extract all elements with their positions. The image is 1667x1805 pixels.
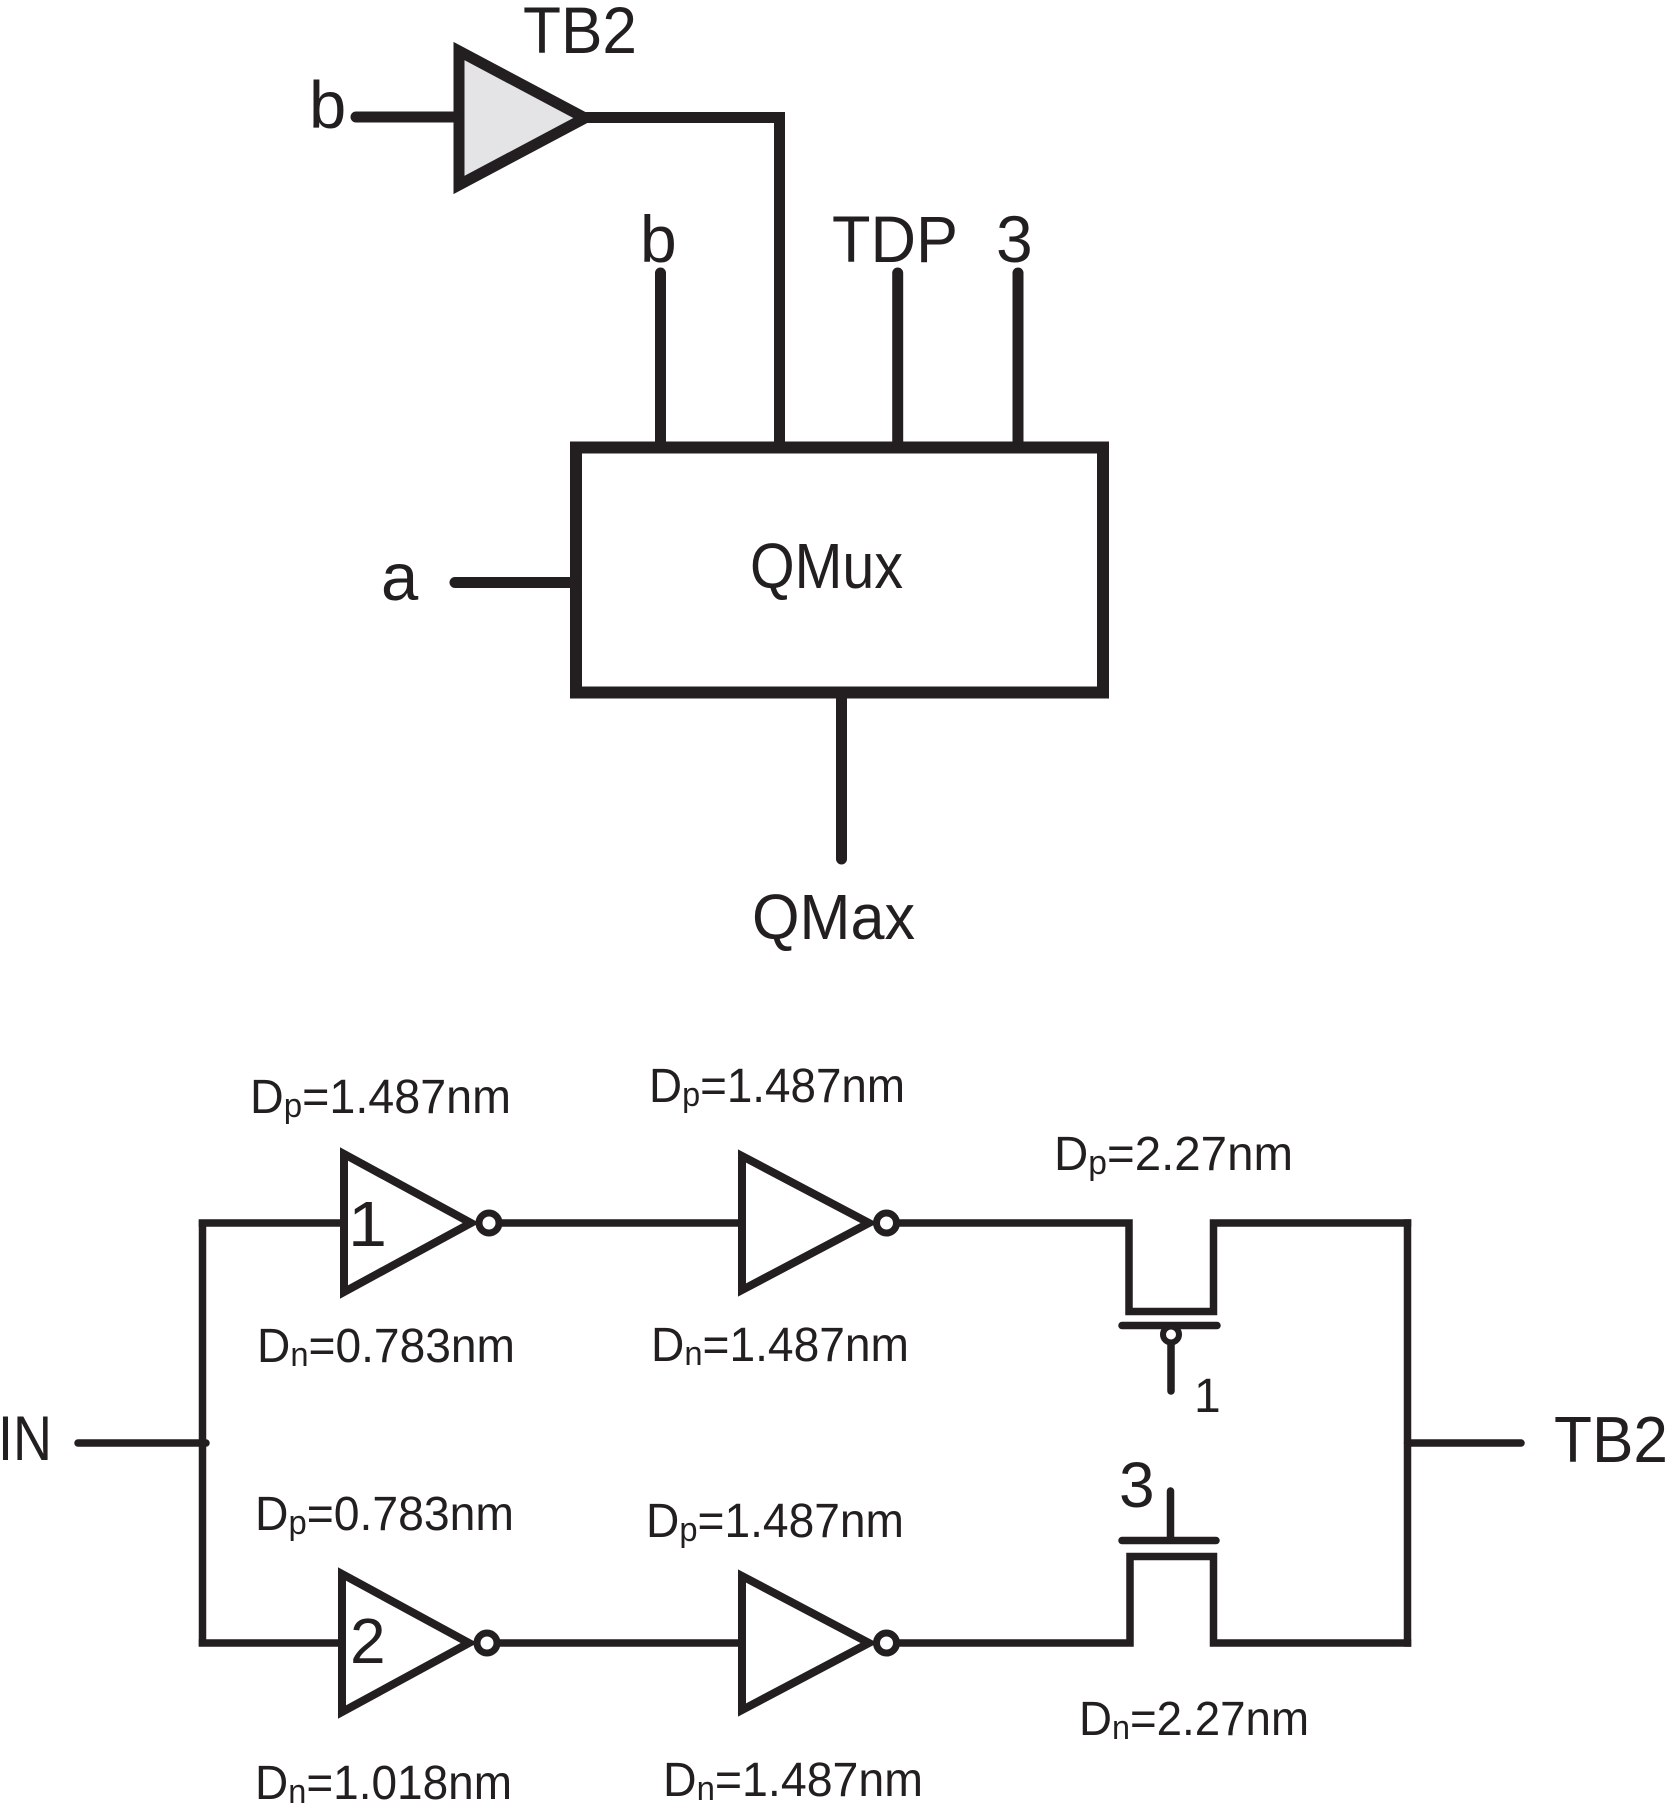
svg-text:1: 1 xyxy=(1194,1370,1221,1423)
svg-text:3: 3 xyxy=(1119,1449,1155,1521)
inverter 2 xyxy=(742,1156,869,1290)
wire output TB2 xyxy=(1408,1439,1522,1447)
svg-text:b: b xyxy=(640,202,677,276)
svg-text:Dp=1.487nm: Dp=1.487nm xyxy=(646,1495,904,1549)
svg-text:Dp=1.487nm: Dp=1.487nm xyxy=(250,1071,511,1125)
wire to inverter 2 (bottom branch) xyxy=(199,1639,347,1647)
svg-text:Dn=1.487nm: Dn=1.487nm xyxy=(663,1754,923,1805)
transistor Q3 (NMOS pass gate) gate bar xyxy=(1122,1537,1216,1545)
svg-text:Dn=0.783nm: Dn=0.783nm xyxy=(257,1320,515,1374)
wire IN xyxy=(78,1439,206,1447)
svg-text:2: 2 xyxy=(350,1605,386,1677)
block QMux xyxy=(576,448,1103,693)
wire inverter 1 to inverter 2 xyxy=(500,1219,746,1227)
buffer TB2 (gray triangle) xyxy=(459,51,585,185)
bubble bottom inverter 2 xyxy=(477,1633,497,1653)
wire b pin into QMux xyxy=(655,273,666,452)
svg-text:Dn=1.018nm: Dn=1.018nm xyxy=(255,1757,512,1805)
wire PMOS gate xyxy=(1167,1344,1175,1391)
wire 3 pin into QMux xyxy=(1013,273,1024,452)
svg-text:TDP: TDP xyxy=(832,202,958,276)
svg-text:QMax: QMax xyxy=(752,881,915,953)
wire QMux output xyxy=(836,694,847,859)
svg-text:IN: IN xyxy=(0,1404,52,1474)
inverter 1 xyxy=(344,1154,471,1292)
svg-text:TB2: TB2 xyxy=(523,0,637,67)
transistor Q1 (PMOS pass gate) gate bar xyxy=(1122,1322,1217,1330)
bubble on PMOS gate xyxy=(1163,1327,1179,1343)
wire inverter 4 to transistor Q3, around channel, to right rail xyxy=(898,1557,1411,1644)
wire TDP pin into QMux xyxy=(892,273,903,452)
wire buffer output to QMux top pin 2 xyxy=(585,118,780,453)
svg-text:Dp=1.487nm: Dp=1.487nm xyxy=(649,1060,905,1114)
svg-text:Dp=2.27nm: Dp=2.27nm xyxy=(1054,1128,1293,1182)
svg-text:QMux: QMux xyxy=(750,530,903,602)
bubble inverter 1 xyxy=(479,1213,499,1233)
wire input split vertical xyxy=(199,1220,207,1647)
wire bottom inverter 2 to bottom inverter 4 xyxy=(498,1639,746,1647)
svg-text:Dn=1.487nm: Dn=1.487nm xyxy=(651,1319,909,1373)
svg-text:Dn=2.27nm: Dn=2.27nm xyxy=(1079,1693,1309,1747)
wire to inverter 1 xyxy=(199,1219,347,1227)
bubble inverter 2 xyxy=(877,1213,897,1233)
svg-text:Dp=0.783nm: Dp=0.783nm xyxy=(255,1488,514,1542)
wire b to buffer TB2 xyxy=(356,112,459,123)
inverter 2 (bottom, labeled 2) xyxy=(342,1574,469,1712)
wire a into QMux xyxy=(455,577,576,588)
svg-text:b: b xyxy=(309,68,346,143)
svg-text:a: a xyxy=(381,540,419,615)
svg-text:3: 3 xyxy=(996,202,1033,276)
wire right rail (vertical) xyxy=(1404,1219,1412,1647)
inverter 4 (bottom second) xyxy=(742,1576,869,1710)
wire inverter 2 to transistor Q1, around channel, to right rail xyxy=(898,1223,1411,1312)
svg-text:1: 1 xyxy=(348,1188,387,1260)
bubble inverter 4 xyxy=(877,1633,897,1653)
svg-text:TB2: TB2 xyxy=(1554,1403,1667,1476)
wire NMOS gate xyxy=(1167,1491,1175,1540)
